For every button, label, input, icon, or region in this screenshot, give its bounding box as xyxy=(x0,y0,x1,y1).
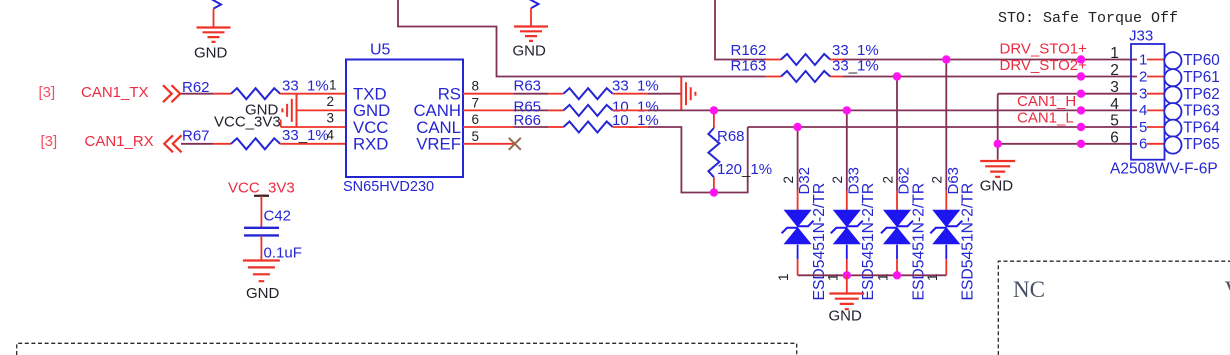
svg-text:R67: R67 xyxy=(182,127,210,144)
svg-text:2: 2 xyxy=(880,176,895,184)
svg-text:V: V xyxy=(1225,277,1230,302)
svg-text:6: 6 xyxy=(1139,136,1147,153)
junction connector row 2 xyxy=(1077,72,1085,80)
wire R68 top stub xyxy=(713,110,715,128)
svg-text:R62: R62 xyxy=(182,79,210,96)
junction connector row 3 xyxy=(1077,90,1085,98)
ground at connector xyxy=(980,161,1015,177)
svg-text:VCC_3V3: VCC_3V3 xyxy=(228,179,295,196)
svg-text:TP64: TP64 xyxy=(1183,119,1220,136)
wire CAN1_RX to R67 xyxy=(181,143,213,145)
svg-text:TP60: TP60 xyxy=(1183,52,1220,69)
svg-text:TP62: TP62 xyxy=(1183,86,1220,103)
svg-text:TP65: TP65 xyxy=(1183,136,1220,153)
junction connector row 6 xyxy=(1077,140,1085,148)
resistor (partial, top edge) above GND2 xyxy=(524,0,539,8)
wire D32 bottom xyxy=(797,259,799,275)
svg-text:33_1%: 33_1% xyxy=(832,58,879,75)
resistor R63 xyxy=(564,88,613,99)
svg-text:5: 5 xyxy=(1139,119,1147,136)
wire CAN1_TX to R62 xyxy=(181,93,213,95)
resistor R65 xyxy=(564,105,613,116)
ground at U5 pin 2 (rotated) xyxy=(282,94,296,127)
svg-text:1: 1 xyxy=(329,78,337,93)
wire R163 to connector row2 xyxy=(830,76,843,78)
svg-text:R66: R66 xyxy=(514,112,542,129)
svg-text:33 1%: 33 1% xyxy=(282,78,329,95)
wire R68 bottom stub xyxy=(713,177,715,192)
svg-text:ESD5451N-2/TR: ESD5451N-2/TR xyxy=(910,183,927,301)
svg-text:33 1%: 33 1% xyxy=(612,78,659,95)
resistor R163 xyxy=(781,71,830,82)
test point TP63 xyxy=(1164,103,1181,120)
svg-text:SN65HVD230: SN65HVD230 xyxy=(343,179,434,195)
wire D33 top xyxy=(846,110,848,190)
resistor (partial, top edge) above GND1 xyxy=(206,0,221,9)
svg-text:4: 4 xyxy=(327,127,335,142)
svg-text:3: 3 xyxy=(1110,79,1119,96)
junction R68 top xyxy=(710,106,718,114)
svg-text:CAN1_L: CAN1_L xyxy=(1017,109,1074,126)
wire D62 bottom xyxy=(896,259,898,275)
J33 pin 5 stub to test point xyxy=(1147,126,1164,128)
svg-text:3: 3 xyxy=(1139,86,1147,103)
op-amp/IC U5 SN65HVD230 xyxy=(346,60,463,178)
svg-text:DRV_STO1+: DRV_STO1+ xyxy=(1000,40,1088,57)
connector J33 xyxy=(1131,44,1165,160)
svg-text:CAN1_TX: CAN1_TX xyxy=(81,84,149,101)
ground GND2 xyxy=(514,27,548,41)
junction D63 top xyxy=(942,55,950,63)
wire ground to U5 pin2 xyxy=(297,109,347,111)
svg-text:C42: C42 xyxy=(264,207,292,224)
svg-text:120_1%: 120_1% xyxy=(717,161,772,178)
junction connector row 1 xyxy=(1077,55,1085,63)
svg-text:2: 2 xyxy=(930,176,945,184)
J33 pin 4 stub to test point xyxy=(1147,109,1164,111)
test point TP62 xyxy=(1164,86,1181,103)
svg-text:R163: R163 xyxy=(731,58,767,75)
capacitor C42 xyxy=(244,228,279,236)
dashed NC box bottom-right xyxy=(998,261,1230,355)
svg-text:CAN1_H: CAN1_H xyxy=(1017,93,1076,110)
svg-text:VCC_3V3: VCC_3V3 xyxy=(214,113,281,130)
diode D33 (TVS) xyxy=(834,210,860,244)
diode D62 (TVS) xyxy=(884,210,910,244)
wire CANH bus xyxy=(613,109,648,111)
wire D63 bottom xyxy=(945,259,947,275)
junction rail D62 xyxy=(893,271,901,279)
svg-text:4: 4 xyxy=(1139,102,1147,119)
junction D32 top xyxy=(793,123,801,131)
test point TP65 xyxy=(1164,136,1181,153)
ground at diode rail xyxy=(846,275,848,293)
svg-text:GND: GND xyxy=(194,45,228,62)
svg-text:2: 2 xyxy=(1110,62,1119,79)
wire D32 top xyxy=(797,127,799,191)
svg-text:1: 1 xyxy=(776,273,791,281)
svg-text:[3]: [3] xyxy=(41,133,58,150)
svg-text:STO: Safe Torque Off: STO: Safe Torque Off xyxy=(998,10,1178,27)
diode D32 (TVS) xyxy=(785,210,811,244)
junction connector row 4 xyxy=(1077,106,1085,114)
svg-text:GND: GND xyxy=(246,285,280,302)
junction connector row 5 xyxy=(1077,123,1085,131)
wire GND to connector pins 3 and 6 xyxy=(997,94,999,160)
wire from top to R162 xyxy=(715,0,766,60)
wire U5 pin6 to R66 xyxy=(463,126,514,128)
dashed sheet box bottom-left xyxy=(17,343,797,355)
junction rail GND xyxy=(843,271,851,279)
wire CANL bus with detour under R68 xyxy=(613,126,648,128)
svg-text:5: 5 xyxy=(1110,113,1119,130)
svg-text:TP63: TP63 xyxy=(1183,103,1220,120)
svg-text:ESD5451N-2/TR: ESD5451N-2/TR xyxy=(860,183,877,301)
junction R68 bottom xyxy=(710,188,718,196)
wire D62 top xyxy=(896,77,898,191)
svg-text:7: 7 xyxy=(472,95,480,110)
svg-text:DRV_STO2+: DRV_STO2+ xyxy=(1000,57,1088,74)
wire stub to GND2 xyxy=(530,8,532,26)
wire D33 bottom xyxy=(846,259,848,275)
wire U5 pin5 (VREF) xyxy=(463,143,514,145)
svg-text:GND: GND xyxy=(513,43,547,60)
svg-text:2: 2 xyxy=(327,94,335,109)
svg-text:2: 2 xyxy=(830,176,845,184)
wire VCC_3V3 to C42 xyxy=(260,196,262,227)
ground GND1 xyxy=(197,28,231,42)
wire U5 pin8 to R63 xyxy=(463,93,514,95)
test point TP61 xyxy=(1164,69,1181,86)
svg-text:3: 3 xyxy=(327,111,335,126)
ground at R63 (rotated) xyxy=(681,77,695,110)
wire C42 to ground xyxy=(260,236,262,261)
wire R63 to ground xyxy=(613,93,648,95)
svg-text:J33: J33 xyxy=(1129,28,1153,45)
J33 pin 2 stub to test point xyxy=(1147,76,1164,78)
junction GND row6 xyxy=(994,140,1002,148)
resistor R67 xyxy=(231,138,280,149)
svg-text:4: 4 xyxy=(1110,96,1119,113)
svg-text:1: 1 xyxy=(1110,45,1119,62)
svg-text:ESD5451N-2/TR: ESD5451N-2/TR xyxy=(960,183,977,301)
svg-text:RXD: RXD xyxy=(353,135,388,154)
svg-text:GND: GND xyxy=(829,308,863,325)
svg-text:CAN1_RX: CAN1_RX xyxy=(85,133,154,150)
svg-text:33 1%: 33 1% xyxy=(832,42,879,59)
svg-text:R162: R162 xyxy=(731,42,767,59)
wire VCC_3V3 to U5 pin3 xyxy=(281,126,346,128)
resistor R162 xyxy=(781,54,830,65)
no-connect X at VREF xyxy=(509,138,521,150)
svg-text:6: 6 xyxy=(472,112,480,127)
svg-text:TP61: TP61 xyxy=(1183,69,1220,86)
wire stub to GND1 xyxy=(213,9,215,28)
svg-text:VREF: VREF xyxy=(416,135,461,154)
junction D33 top xyxy=(843,106,851,114)
junction D62 top xyxy=(893,72,901,80)
wire diode bottom rail xyxy=(798,274,947,276)
svg-text:5: 5 xyxy=(472,129,480,144)
svg-text:GND: GND xyxy=(980,177,1014,194)
wire R62 to U5 pin1 xyxy=(280,93,346,95)
port chevron CAN1_TX >> xyxy=(163,85,180,102)
port chevron CAN1_RX << xyxy=(164,135,181,152)
svg-text:U5: U5 xyxy=(370,42,391,59)
wire R67 to U5 pin4 xyxy=(280,143,346,145)
svg-text:8: 8 xyxy=(472,79,480,94)
svg-text:A2508WV-F-6P: A2508WV-F-6P xyxy=(1110,161,1218,178)
svg-text:0.1uF: 0.1uF xyxy=(264,244,302,261)
resistor R62 xyxy=(231,88,280,99)
J33 pin 3 stub to test point xyxy=(1147,93,1164,95)
wire U5 pin7 to R65 xyxy=(463,109,514,111)
svg-text:2: 2 xyxy=(781,176,796,184)
svg-text:6: 6 xyxy=(1110,129,1119,146)
svg-text:R68: R68 xyxy=(717,128,745,145)
svg-text:1: 1 xyxy=(1139,51,1147,68)
wire D63 top xyxy=(945,60,947,191)
svg-text:[3]: [3] xyxy=(39,84,56,101)
wire from top to R163 xyxy=(398,0,765,77)
ground at C42 xyxy=(243,261,280,282)
diode D63 (TVS) xyxy=(933,210,959,244)
svg-text:NC: NC xyxy=(1013,277,1045,302)
svg-text:2: 2 xyxy=(1139,68,1147,85)
svg-text:R63: R63 xyxy=(514,78,542,95)
test point TP60 xyxy=(1164,52,1181,69)
svg-text:ESD5451N-2/TR: ESD5451N-2/TR xyxy=(811,183,828,301)
J33 pin 6 stub to test point xyxy=(1147,143,1164,145)
test point TP64 xyxy=(1164,120,1181,137)
resistor R66 xyxy=(564,122,613,133)
J33 pin 1 stub to test point xyxy=(1147,59,1164,61)
resistor R68 xyxy=(708,128,719,177)
wire R162 to connector row1 xyxy=(830,59,843,61)
svg-text:33_1%: 33_1% xyxy=(282,127,329,144)
